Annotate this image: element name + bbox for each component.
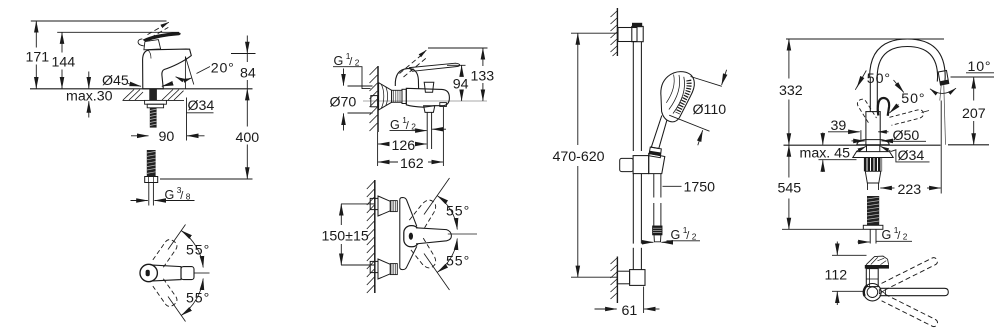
hose cone nipple [654, 235, 661, 242]
tail flange [863, 225, 883, 229]
dimension 545 [788, 145, 790, 229]
svg-text:2: 2 [355, 58, 360, 68]
swivel arc upper [181, 231, 203, 268]
dashed handle up [153, 238, 179, 268]
swivel arc lower [181, 279, 203, 316]
svg-text:545: 545 [778, 181, 802, 197]
G1/2 fig4 arrow [858, 241, 870, 243]
rail tube [633, 42, 641, 270]
deck underside lines [123, 100, 145, 102]
extension line top (133) [428, 47, 488, 49]
mixer body [406, 88, 449, 107]
spray face dotted band [678, 80, 690, 113]
dashed lever arrow [423, 50, 427, 53]
threaded rod lower [147, 150, 156, 177]
handle arm [151, 265, 182, 281]
Ø34 arrows diagonal [856, 146, 891, 151]
rail top cap [632, 26, 643, 41]
shower handle [651, 116, 667, 149]
dimension Ø50 arrows [852, 140, 892, 142]
extension line top (112) [832, 254, 867, 256]
mousseur [440, 103, 447, 107]
riser tube [870, 77, 877, 112]
39 extension tick [860, 130, 862, 141]
svg-text:400: 400 [236, 130, 260, 146]
lever slot [409, 233, 413, 240]
dimension 126 [378, 143, 427, 145]
extension line spout tip [442, 107, 444, 166]
dimension 150+-15 [340, 204, 342, 265]
spout arc [870, 39, 946, 81]
cartridge dome [395, 69, 418, 89]
extension line Ø34 bracket [186, 98, 188, 141]
svg-text:2: 2 [411, 122, 416, 132]
body front view [400, 198, 417, 270]
rod end nut [145, 177, 158, 183]
flow bowtie symbol [879, 290, 885, 294]
spout arc inner [877, 47, 937, 82]
solid loop lever [878, 98, 889, 116]
extension line hose end fig4 (545) [782, 228, 863, 230]
extension line lever tip (94) [447, 64, 466, 66]
39 underline and arrow [828, 131, 860, 133]
extension line conn upper [341, 203, 374, 205]
G1/2 hose arrows [644, 241, 672, 243]
dimension Ø45 leader left [128, 84, 141, 87]
dashed spout down [882, 294, 939, 327]
top bracket arm [618, 28, 637, 42]
lever handle (closed, dark) [143, 32, 180, 41]
dashed lever down [409, 238, 439, 271]
extension line conn lower [341, 264, 374, 266]
rail cap knob [632, 23, 641, 27]
dimension 332 [788, 39, 790, 145]
dimension 133 [482, 48, 484, 101]
dimension Ø110 ext upper [691, 77, 722, 87]
hose knurled fitting [653, 226, 662, 235]
dimension max.30 [88, 72, 90, 118]
spout angle reference line [184, 57, 186, 89]
dimension 90 [131, 135, 205, 137]
escutcheon cone [379, 83, 392, 110]
holder clamp [633, 156, 649, 174]
label G1/2 top left [334, 51, 360, 68]
hose upper [654, 174, 661, 226]
svg-text:50°: 50° [901, 91, 925, 107]
base circle shading [864, 285, 868, 296]
faucet body inner contour [148, 51, 151, 59]
upper escutcheon [378, 196, 390, 216]
svg-text:55°: 55° [446, 204, 470, 220]
wall hatching lower view [367, 181, 375, 293]
svg-text:332: 332 [779, 83, 803, 99]
threaded tail [867, 196, 879, 225]
svg-text:2: 2 [692, 232, 697, 242]
upper connection nut [370, 198, 378, 209]
extension line outlet level (207) [951, 76, 995, 78]
wall line upper [377, 66, 379, 132]
dashed lever right [890, 110, 924, 126]
neck middle line [866, 278, 878, 280]
svg-text:G: G [165, 188, 175, 202]
shower outlet pipe [427, 112, 431, 149]
wall line bottom [616, 257, 618, 304]
handle slot [146, 270, 150, 276]
centerline right front [448, 233, 477, 235]
washer under deck [145, 100, 167, 104]
knurled nut [392, 90, 402, 102]
dashed lever right axis [922, 111, 930, 113]
angle arc 20deg [176, 77, 192, 79]
label G1/2 fig4 [882, 225, 908, 242]
label Ø34 underline [187, 112, 214, 114]
svg-text:G: G [334, 54, 344, 68]
svg-text:Ø34: Ø34 [188, 98, 215, 114]
knurled locknut [864, 158, 882, 171]
hand shower head [661, 72, 695, 122]
extension line bottom (112) [832, 290, 864, 292]
label G1/2 (hose) [671, 225, 697, 242]
union connector [402, 89, 406, 103]
svg-text:8: 8 [186, 192, 191, 202]
wall line lower view [374, 180, 376, 293]
svg-text:112: 112 [825, 267, 848, 283]
swivel diagonal up [168, 225, 186, 250]
deck line fig4 [784, 144, 941, 146]
svg-text:223: 223 [898, 182, 922, 198]
outlet mousseur [938, 71, 949, 86]
extension line top (470-620) [571, 32, 617, 34]
neck top view [866, 269, 878, 287]
body centerline [363, 100, 487, 102]
bottom bracket arm [617, 271, 629, 284]
shank break lines [868, 183, 879, 190]
svg-text:Ø45: Ø45 [102, 73, 129, 89]
dimension 61 [595, 308, 660, 310]
spout angle slanted line [185, 57, 193, 85]
escutcheon inner rings [381, 84, 387, 108]
dimension Ø45 leader right [162, 84, 172, 87]
G1/2 top underline and leader [333, 67, 371, 89]
lever end curl [138, 39, 144, 46]
svg-text:Ø110: Ø110 [693, 102, 727, 118]
dimension 171 [35, 21, 37, 89]
lower knurl ring [390, 264, 397, 275]
handle cone end [649, 147, 662, 158]
svg-text:G: G [882, 228, 892, 242]
dimension 162 [378, 161, 443, 163]
swivel diagonal down [168, 297, 186, 322]
extension line spout outlet level [231, 53, 256, 55]
centerline right [195, 272, 210, 274]
leader to 20deg label [197, 67, 211, 74]
G1/2 hose underline [667, 240, 701, 242]
dashed spout up [882, 257, 939, 290]
svg-text:94: 94 [453, 77, 469, 93]
svg-text:50°: 50° [867, 71, 891, 87]
outlet 10deg line [940, 85, 941, 100]
supply pipe below nut [149, 183, 154, 206]
svg-text:Ø34: Ø34 [898, 148, 925, 164]
deck hatching left [123, 90, 143, 101]
body column [866, 112, 880, 146]
svg-text:150±15: 150±15 [322, 228, 369, 244]
label G3/8 [165, 185, 191, 202]
svg-text:55°: 55° [446, 254, 470, 270]
label 10deg underline [966, 72, 994, 74]
deck hatching right [162, 90, 184, 101]
label G1/2 middle [390, 115, 416, 132]
svg-text:162: 162 [400, 156, 424, 172]
svg-text:20°: 20° [211, 61, 235, 77]
lever front view [416, 228, 451, 244]
dimension Ø110 ext lower [669, 115, 709, 131]
dashed handle down [153, 279, 179, 309]
wall hatching top [611, 11, 618, 56]
handle tip cap [181, 267, 194, 280]
svg-text:126: 126 [392, 138, 416, 154]
threaded rod upper [150, 108, 157, 128]
svg-text:1750: 1750 [684, 180, 716, 196]
dashed open lever [148, 24, 169, 37]
spout outlet cup [424, 106, 435, 113]
swivel arc lower front [437, 239, 457, 273]
faucet body [143, 49, 192, 89]
spout top view [880, 288, 949, 295]
handle top view body [140, 264, 157, 281]
holder knob [620, 158, 633, 171]
threaded shank through deck [149, 89, 157, 100]
dimension 207 [973, 77, 975, 145]
upper knurl ring [390, 201, 397, 212]
dimension 470-620 [577, 33, 579, 277]
dimension 112 [836, 242, 838, 306]
svg-text:133: 133 [471, 68, 495, 84]
leader 1750 [663, 185, 682, 187]
dimension Ø70 [344, 69, 373, 131]
base circle inner [867, 287, 878, 298]
swivel diagonal down [424, 254, 450, 291]
shank cone [865, 171, 881, 183]
lever blade [410, 63, 460, 71]
svg-text:2: 2 [903, 232, 908, 242]
lever cap [144, 40, 161, 50]
dimension G3/8 arrow [131, 200, 148, 202]
svg-text:61: 61 [622, 303, 638, 319]
swivel diagonal up [424, 178, 450, 215]
deck line fig4 right part [948, 144, 989, 146]
neck inner line [869, 269, 871, 287]
Ø50 small arrow [878, 131, 888, 133]
countertop deck line [30, 88, 253, 90]
max.45 arrows [822, 133, 824, 173]
washer below deck [853, 152, 893, 158]
shank stub [867, 145, 880, 151]
svg-text:G: G [390, 118, 400, 132]
Ø110 arrow upper [722, 70, 727, 85]
svg-text:55°: 55° [186, 291, 210, 307]
base circle outer [864, 284, 881, 301]
extension line outlet axis (223) [940, 101, 942, 194]
extension line 144 level [57, 31, 179, 33]
dashed lever up [409, 197, 439, 230]
Ø34 bracket [891, 150, 930, 162]
outlet axis line [944, 85, 946, 145]
dashed open lever [400, 53, 429, 78]
wall line top [616, 8, 618, 56]
50deg no1 arrow left [857, 80, 861, 88]
extension line wall lower [377, 132, 379, 166]
svg-text:max.30: max.30 [66, 88, 113, 104]
svg-text:84: 84 [240, 66, 256, 82]
svg-text:Ø50: Ø50 [893, 128, 920, 144]
svg-text:171: 171 [26, 50, 50, 66]
50deg no2 leader [890, 105, 899, 114]
label G3/8 underline with arrow [154, 200, 194, 202]
swivel arc 10deg [930, 88, 956, 93]
G1/2 fig4 underline [876, 240, 912, 242]
lever top view blade [865, 265, 889, 269]
Ø110 arrow lower [698, 130, 703, 145]
50deg no1 arrow right [894, 80, 904, 93]
lower connection nut [370, 261, 378, 272]
mounting nut [147, 104, 163, 108]
Ø50 underline [891, 140, 926, 142]
handle cone band [649, 151, 661, 156]
dimension 84 stubs [246, 54, 248, 89]
tail pipe [870, 229, 876, 243]
G1/2 middle underline [390, 130, 412, 132]
diverter knob [424, 82, 434, 92]
dimension 400 [246, 89, 248, 179]
svg-text:144: 144 [52, 55, 76, 71]
escutcheon dome [857, 140, 890, 145]
max.45 underline (deck underside) [819, 159, 857, 161]
svg-text:90: 90 [159, 129, 175, 145]
lever top view sketch [866, 256, 889, 265]
swivel arc upper front [437, 196, 457, 230]
svg-text:55°: 55° [186, 242, 210, 258]
wall supply square [371, 96, 378, 107]
extension line top (332) [786, 38, 944, 40]
dimension 84 upper segment [246, 36, 248, 54]
head inner contour [673, 77, 685, 114]
bottom bracket block [630, 270, 645, 286]
lower escutcheon [378, 259, 390, 279]
wall hatching upper [370, 67, 378, 131]
50deg no1 ray left [855, 71, 866, 90]
wall hatching bottom [611, 258, 618, 299]
extension line hose end [160, 178, 253, 180]
lever pivot ring [404, 226, 419, 247]
dashed loop lever left [856, 97, 877, 124]
svg-text:G: G [671, 228, 681, 242]
dimension 223 [880, 187, 940, 189]
dimension 144 [61, 32, 63, 88]
svg-text:470-620: 470-620 [553, 149, 605, 165]
svg-text:Ø70: Ø70 [330, 94, 357, 110]
holder cup [649, 154, 665, 174]
extension line rail right (61) [643, 287, 645, 314]
svg-text:207: 207 [962, 106, 986, 122]
dimension 94 [461, 65, 463, 101]
dashed lever arrow [164, 22, 169, 25]
G1/2 diameter arrows [412, 129, 447, 130]
extension line bottom (470-620) [571, 276, 617, 278]
extension line top (171 level) [31, 20, 167, 22]
